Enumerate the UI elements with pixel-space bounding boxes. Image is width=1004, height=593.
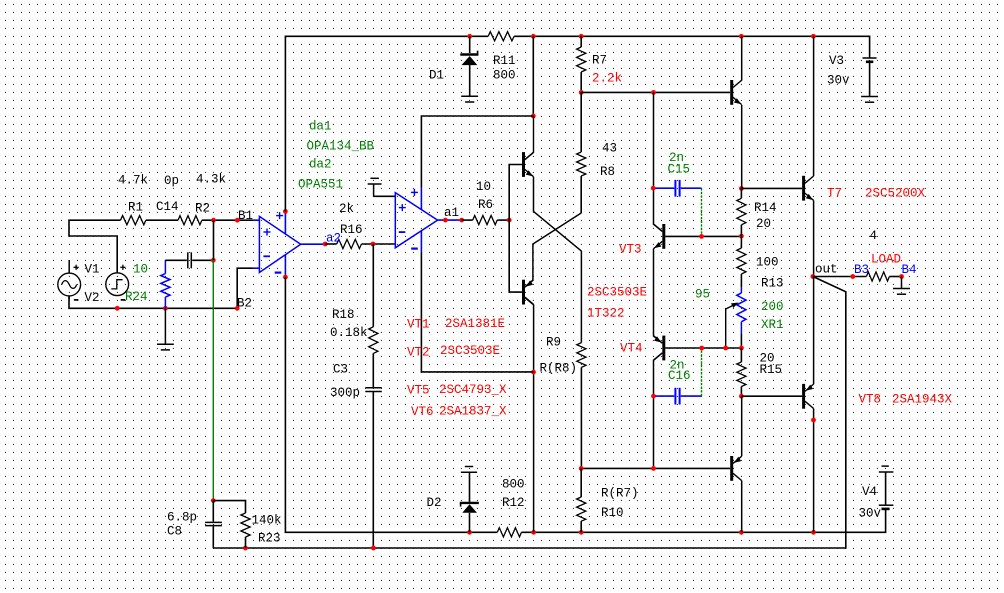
U2 V+ pin stub <box>420 188 422 210</box>
svg-text:da2: da2 <box>309 158 332 172</box>
wire T7 collector <box>813 36 815 176</box>
wire VT4 collector down <box>654 353 663 469</box>
svg-text:da1: da1 <box>309 120 332 134</box>
node rail2-C3 <box>371 546 376 551</box>
svg-text:2SA1381E: 2SA1381E <box>445 317 505 331</box>
node out <box>811 274 816 279</box>
U2 output lead (net a1) <box>438 219 462 221</box>
svg-text:B4: B4 <box>902 263 917 277</box>
wire bottom rail right to V4 <box>522 509 886 532</box>
U1 +input lead <box>253 219 260 221</box>
svg-text:R15: R15 <box>760 363 783 377</box>
resistor R15 <box>737 362 746 387</box>
svg-text:D2: D2 <box>427 496 442 510</box>
wire R1 to R2 <box>146 219 178 221</box>
U2 power minus label <box>411 248 418 250</box>
svg-text:20: 20 <box>756 217 771 231</box>
svg-text:B2: B2 <box>237 297 252 311</box>
wire VT1 emitter to cross <box>534 177 582 343</box>
node B2 <box>235 306 240 311</box>
resistor R10 <box>577 497 586 521</box>
svg-text:200: 200 <box>761 300 784 314</box>
wire R14 bottom lead <box>740 225 742 236</box>
node a1 right <box>459 218 464 223</box>
ground at U2 +input (pointing up) <box>373 184 375 196</box>
wire VT4 base to R15 node <box>665 347 741 349</box>
wire input from sources to R1 <box>69 220 121 273</box>
svg-text:VT8: VT8 <box>859 393 882 407</box>
ground at D1 <box>461 95 478 97</box>
svg-text:C14: C14 <box>156 200 179 214</box>
svg-text:2SC3503E: 2SC3503E <box>440 344 500 358</box>
svg-text:XR1: XR1 <box>761 318 784 332</box>
node rail-D2 <box>467 530 472 535</box>
wire VT2 base <box>509 220 522 292</box>
node U2 V+ junction <box>531 114 536 119</box>
op-amp U1 triangle <box>259 216 300 272</box>
wire C8 bottom lead <box>212 526 214 548</box>
wire T7 base <box>741 187 802 189</box>
node rail-Q5 <box>739 34 744 39</box>
wire R16 node down to R18 <box>372 244 374 327</box>
node C15 green to VT3 base <box>699 234 704 239</box>
V2 plus mark <box>120 266 125 268</box>
svg-text:C8: C8 <box>167 525 182 539</box>
node rail-x533 <box>531 34 536 39</box>
node R14 bottom <box>739 234 744 239</box>
ground at R24 <box>164 308 166 344</box>
node wiper junction <box>723 346 728 351</box>
wire VT3 collector <box>654 92 663 231</box>
V2 minus mark <box>121 299 126 301</box>
node B4 <box>899 274 904 279</box>
resistor R14 <box>737 198 746 225</box>
svg-text:T7: T7 <box>827 187 842 201</box>
capacitor C15 (blue) <box>656 187 675 189</box>
node R7 bottom <box>579 90 584 95</box>
svg-text:1T322: 1T322 <box>587 307 625 321</box>
node VT8 collector stub <box>811 418 816 423</box>
svg-text:10: 10 <box>133 263 148 277</box>
wire C15 green drop <box>701 188 703 236</box>
transistor VT8 <box>802 384 805 409</box>
wire top rail left + U1 V+ feed <box>285 36 488 211</box>
wire R16 to U2 -input <box>362 243 396 245</box>
wire U1 V- down to bottom rail, rail to R12 <box>285 277 497 532</box>
wire VT8 collector to bottom rail <box>813 409 815 533</box>
U2 inner plus <box>399 207 406 209</box>
node green-C8 <box>211 498 216 503</box>
wire Q5 collector <box>741 36 743 80</box>
U1 inner plus <box>264 231 271 233</box>
wire Q6 collector to bottom rail <box>741 481 743 533</box>
svg-text:R23: R23 <box>258 532 281 546</box>
svg-text:D1: D1 <box>429 69 444 83</box>
svg-text:B1: B1 <box>238 209 253 223</box>
U2 V- pin stub <box>420 231 422 253</box>
wire VT8 base <box>741 395 802 397</box>
svg-text:R8: R8 <box>600 165 615 179</box>
node rail2-R23 <box>243 546 248 551</box>
wire C14 to feedback node <box>192 259 213 261</box>
node C15 left <box>651 186 656 191</box>
svg-text:VT1: VT1 <box>407 318 430 332</box>
node R14 top <box>739 186 744 191</box>
resistor R11 <box>488 32 514 41</box>
wire R15 top lead <box>740 348 742 362</box>
battery V4 <box>882 465 889 467</box>
svg-text:2k: 2k <box>339 202 354 216</box>
svg-text:R12: R12 <box>502 496 525 510</box>
U1 -input lead <box>253 267 260 269</box>
wire a1 to R6 <box>462 219 473 221</box>
transistor T7 <box>802 176 805 201</box>
resistor R12 <box>497 528 521 537</box>
svg-text:LOAD: LOAD <box>871 253 901 267</box>
svg-text:VT6: VT6 <box>411 405 434 419</box>
wire VT8 emitter to out <box>813 277 815 385</box>
U2 inner minus <box>399 231 406 233</box>
resistor R1 <box>121 216 146 225</box>
transistor VT2 <box>522 280 525 305</box>
resistor R9 <box>577 343 586 368</box>
node R16 right <box>371 242 376 247</box>
wire C8 top lead <box>212 501 214 522</box>
U2 +input wire <box>374 195 396 197</box>
svg-text:95: 95 <box>695 288 710 302</box>
node rail-VT2col <box>531 530 536 535</box>
node VT2 collector / U2 V- junction <box>531 370 536 375</box>
diode D2 (zener) <box>460 502 479 504</box>
resistor R7 <box>577 47 586 72</box>
capacitor C16 (blue) <box>656 395 675 397</box>
U1 inner minus <box>263 255 270 257</box>
svg-text:R11: R11 <box>493 54 516 68</box>
wire R13 to XR1 <box>740 274 742 287</box>
svg-text:0p: 0p <box>164 174 179 188</box>
svg-text:140k: 140k <box>252 514 282 528</box>
svg-text:4.7k: 4.7k <box>118 174 148 188</box>
svg-text:100: 100 <box>756 256 779 270</box>
svg-text:out: out <box>815 263 838 277</box>
svg-text:R1: R1 <box>128 201 143 215</box>
wire top rail right <box>514 36 870 58</box>
source V1 (sine) <box>58 273 81 296</box>
wire C16 green rise <box>701 348 703 396</box>
wire R14 top lead <box>740 188 742 198</box>
wire black stub above feedback node <box>213 220 215 260</box>
resistor R6 <box>473 216 498 225</box>
U1 V+ node <box>283 209 288 214</box>
wire R7 to base bus <box>580 72 582 92</box>
svg-text:R10: R10 <box>601 506 624 520</box>
diode D1 (zener) <box>460 53 478 55</box>
svg-text:2.2k: 2.2k <box>592 72 622 86</box>
svg-text:VT5: VT5 <box>407 384 430 398</box>
wire out feedback diagonal <box>213 277 846 549</box>
transistor VT1 <box>522 152 525 177</box>
U1 power plus label <box>276 215 283 217</box>
svg-text:C16: C16 <box>668 369 691 383</box>
svg-text:C15: C15 <box>668 163 691 177</box>
resistor R18 <box>369 327 378 354</box>
svg-text:2SC3503E: 2SC3503E <box>587 286 647 300</box>
svg-text:R18: R18 <box>332 308 355 322</box>
wire out bus to load <box>813 276 867 278</box>
XR1 wiper arrow <box>726 304 736 348</box>
wire x533 rail drop <box>532 36 534 116</box>
node B1 <box>235 218 240 223</box>
transistor Q5 (pre-driver NPN) <box>730 80 733 105</box>
wire XR1 bottom lead <box>740 322 742 334</box>
svg-text:2SA1943X: 2SA1943X <box>892 393 953 407</box>
svg-text:V2: V2 <box>85 291 100 305</box>
svg-text:2SC5200X: 2SC5200X <box>865 187 926 201</box>
svg-text:800: 800 <box>502 478 525 492</box>
wire VT1 base <box>509 165 522 221</box>
svg-text:OPA134_BB: OPA134_BB <box>307 140 375 154</box>
svg-text:a2: a2 <box>326 232 341 246</box>
svg-text:R13: R13 <box>761 277 784 291</box>
svg-text:VT2: VT2 <box>407 346 430 360</box>
source V2 (pulse) <box>106 273 129 296</box>
node junction at R2 output <box>211 218 216 223</box>
node rail-D1 <box>467 34 472 39</box>
wire R23 top <box>213 501 245 513</box>
node C16 left <box>651 394 656 399</box>
svg-text:10: 10 <box>476 180 491 194</box>
resistor R23 <box>241 513 250 537</box>
wire R9 to lower bus <box>580 367 582 468</box>
node C16 green to VT4 base <box>699 346 704 351</box>
ground above D2 (pointing up) <box>461 471 477 473</box>
svg-text:43: 43 <box>602 142 617 156</box>
node feedback tap <box>211 258 216 263</box>
svg-text:4: 4 <box>870 229 878 243</box>
ground at B4 <box>901 277 903 289</box>
ground at V3 <box>861 96 878 98</box>
wire VT3 base to R14 node <box>665 235 741 237</box>
wire R10 bottom lead <box>580 521 582 532</box>
wire R2 to op-amp U1 +input (node B1) <box>202 219 253 221</box>
node rail-Q6col <box>739 530 744 535</box>
node rail-T7 <box>811 34 816 39</box>
resistor R2 <box>178 216 202 225</box>
svg-text:R16: R16 <box>340 223 363 237</box>
wire R24 top to capacitor C14 <box>165 259 187 261</box>
wire T7 emitter to out <box>813 200 815 276</box>
U1 output lead <box>301 243 326 245</box>
V1 plus mark <box>74 266 79 268</box>
node VT3 collector tap <box>651 90 656 95</box>
wire R15 bottom lead <box>740 387 742 397</box>
battery V3 <box>863 57 877 59</box>
node lower bus VT4 <box>651 466 656 471</box>
wire VT2 collector down <box>525 298 534 533</box>
svg-text:2SC4793_X: 2SC4793_X <box>439 383 507 397</box>
svg-text:C3: C3 <box>333 363 348 377</box>
svg-text:OPA551: OPA551 <box>298 178 343 192</box>
transistor Q6 (driver PNP) <box>730 456 733 481</box>
resistor R24 (blue) <box>164 260 166 273</box>
svg-text:2SA1837_X: 2SA1837_X <box>439 405 507 419</box>
U1 V- node <box>283 275 288 280</box>
wire VT1 collector <box>525 116 534 160</box>
op-amp U2 triangle <box>395 193 437 248</box>
svg-text:4.3k: 4.3k <box>196 173 226 187</box>
svg-text:V1: V1 <box>85 263 100 277</box>
wire source ground bus <box>69 268 253 308</box>
wire base bus to Q5 <box>581 91 730 93</box>
wire R8 top lead <box>580 92 582 152</box>
wire LOAD to B4 <box>889 276 901 278</box>
wire C3 down to bottom feedback rail <box>372 392 374 549</box>
node R15 bottom <box>739 394 744 399</box>
resistor R8 <box>577 152 586 176</box>
wire Q6 emitter up to R15 node <box>741 396 743 456</box>
wire net feedback (green) down to C8 <box>212 260 214 500</box>
svg-text:30v: 30v <box>827 74 850 88</box>
svg-text:30v: 30v <box>859 507 882 521</box>
U2 power plus label <box>411 191 418 193</box>
U1 power minus label <box>275 272 282 274</box>
svg-text:R2: R2 <box>195 202 210 216</box>
svg-text:V3: V3 <box>829 54 844 68</box>
svg-text:6.8p: 6.8p <box>167 511 197 525</box>
svg-text:V4: V4 <box>862 485 877 499</box>
svg-text:0.18k: 0.18k <box>330 326 368 340</box>
resistor R16 <box>337 239 362 248</box>
node a1 left <box>443 218 448 223</box>
node R6 right <box>507 218 512 223</box>
node V2 negative junction <box>115 306 120 311</box>
svg-text:R7: R7 <box>592 54 607 68</box>
wire a2 to R16 <box>325 243 337 245</box>
wire VT3 emitter to VT4 emitter <box>654 249 663 344</box>
wire R8 cross to VT2 emitter <box>525 213 581 287</box>
wire R10 top lead <box>580 468 582 497</box>
V1 minus mark <box>74 299 79 301</box>
svg-text:R9: R9 <box>546 336 561 350</box>
capacitor C8 <box>205 521 222 523</box>
svg-text:800: 800 <box>493 69 516 83</box>
node R24 ground junction <box>163 306 168 311</box>
resistor LOAD <box>866 272 889 281</box>
wire R8 to cross <box>580 176 582 213</box>
U1 V+ pin stub <box>284 211 286 234</box>
svg-text:R6: R6 <box>478 198 493 212</box>
svg-text:a1: a1 <box>444 206 459 220</box>
svg-text:B3: B3 <box>854 263 869 277</box>
wire Q5 emitter to R14 node <box>741 105 743 188</box>
wire R6 to VT base node <box>497 219 509 221</box>
capacitor C3 <box>365 387 382 389</box>
transistor VT4 <box>662 336 665 361</box>
svg-text:R(R8): R(R8) <box>540 362 578 376</box>
svg-text:VT4: VT4 <box>620 342 643 356</box>
potentiometer XR1 (blue) <box>737 293 746 322</box>
node rail-R7 <box>579 34 584 39</box>
svg-text:R14: R14 <box>754 201 777 215</box>
svg-text:R(R7): R(R7) <box>601 487 639 501</box>
wire rail to D1 <box>469 36 471 53</box>
wire lower base bus <box>581 467 730 469</box>
node lower bus R9 <box>579 466 584 471</box>
svg-text:300p: 300p <box>330 386 360 400</box>
svg-text:R24: R24 <box>125 290 148 304</box>
wire U2 V- feed <box>421 252 533 372</box>
svg-text:VT3: VT3 <box>619 243 642 257</box>
node XR1 bottom junction <box>739 346 744 351</box>
wire rail to R7 <box>580 36 582 47</box>
capacitor C14 <box>187 252 189 268</box>
node rail-R10 <box>579 530 584 535</box>
resistor R13 <box>737 248 746 274</box>
wire R13 top lead <box>740 236 742 248</box>
wire R18 to C3 <box>372 353 374 387</box>
node rail-VT8col <box>811 530 816 535</box>
wire R23 bottom lead <box>245 537 247 548</box>
transistor VT3 <box>662 224 665 249</box>
node a2 <box>323 242 328 247</box>
U1 V- pin stub <box>284 255 286 277</box>
node B3 <box>850 274 855 279</box>
wire U2 V+ feed <box>421 116 533 188</box>
